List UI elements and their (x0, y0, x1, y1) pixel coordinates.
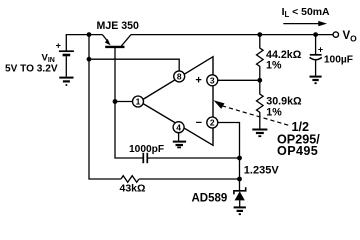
wire V+ to pin8 (y=59.2) (89, 59, 179, 71)
wire top rail left (battery to emitter) (66, 35, 102, 52)
pin 3 (207, 75, 218, 86)
battery V1 VIN (59, 51, 74, 76)
wire 43k to reference node (139, 178, 239, 180)
pin 1 (133, 96, 144, 107)
wire top rail right (collector to VO terminal) (131, 34, 333, 36)
svg-text:1000pF: 1000pF (129, 144, 164, 155)
wire base vertical (x=115) down to 1000pF (115, 47, 143, 158)
capacitor C1 1000pF (143, 153, 147, 163)
svg-text:+: + (195, 74, 201, 86)
svg-text:+: + (56, 41, 61, 51)
node A (VIN top rail) (87, 32, 92, 37)
node C (base / pin1) (113, 99, 118, 104)
capacitor C2 100uF (310, 35, 322, 76)
ground 100uF (310, 77, 322, 84)
wire VIN left vertical (x=89) down to 43k wire (89, 35, 121, 179)
node F (divider top) (257, 32, 262, 37)
svg-text:4: 4 (176, 122, 181, 132)
svg-text:IL < 50mA: IL < 50mA (282, 7, 330, 19)
wire 1000pF right to reference node (148, 157, 240, 159)
svg-text:100µF: 100µF (324, 54, 353, 65)
svg-text:1: 1 (136, 97, 141, 107)
pin 2 (207, 117, 218, 128)
resistor R3 43k (121, 176, 139, 183)
diode D1 AD589 (234, 187, 246, 206)
wire pin3 to divider node (218, 79, 260, 81)
svg-text:2: 2 (210, 118, 215, 128)
resistor R1 44.2k (256, 35, 263, 81)
svg-text:−: − (196, 117, 202, 129)
dashed arrow to op-amp (214, 100, 292, 126)
ground AD589 (234, 207, 246, 214)
node E (43k / AD589) (237, 177, 242, 182)
svg-text:1%: 1% (266, 60, 282, 72)
ground op-amp pin4 (173, 142, 186, 148)
node B (VIN to op-amp supply) (87, 57, 92, 62)
pin 4 (173, 122, 184, 133)
svg-text:43kΩ: 43kΩ (120, 183, 146, 195)
svg-text:1%: 1% (266, 106, 282, 118)
resistor R2 30.9k (256, 80, 263, 128)
svg-text:8: 8 (177, 72, 182, 82)
node D (1000pF / reference) (237, 156, 242, 161)
wire pin2 to reference node vertical (218, 123, 240, 191)
ground battery (59, 78, 73, 85)
svg-text:AD589: AD589 (192, 193, 228, 205)
terminal VO (333, 32, 338, 37)
transistor Q1 MJE 350 (102, 35, 131, 47)
pin 8 (174, 71, 185, 82)
node H (output cap tap) (313, 32, 318, 37)
node G (divider mid) (257, 78, 262, 83)
svg-text:+: + (318, 45, 323, 55)
svg-text:MJE 350: MJE 350 (97, 20, 140, 32)
svg-text:OP495: OP495 (277, 144, 318, 158)
op-amp U1 triangle (140, 57, 214, 146)
arrow IL (283, 21, 327, 26)
ground divider (252, 130, 267, 137)
svg-text:3: 3 (210, 75, 215, 85)
svg-text:1.235V: 1.235V (244, 165, 280, 177)
wire pin4 to ground (178, 133, 180, 141)
wire pin1 to base line (115, 101, 133, 103)
svg-text:5V TO 3.2V: 5V TO 3.2V (5, 64, 58, 75)
